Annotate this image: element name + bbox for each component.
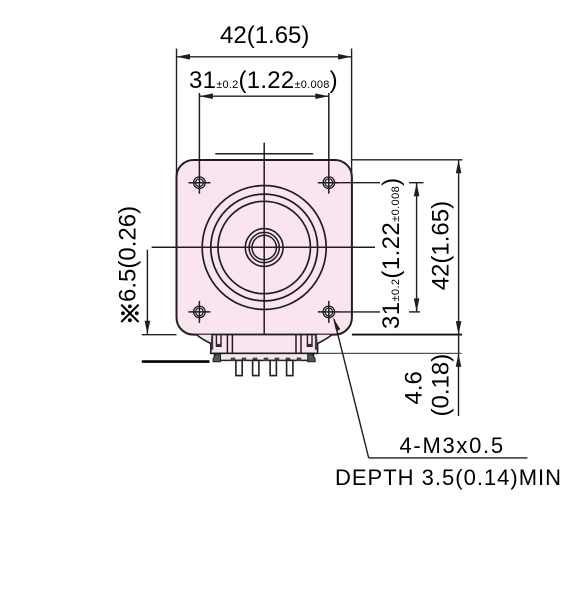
svg-text:6.5(0.26): 6.5(0.26) xyxy=(115,206,142,302)
right 31 dim top arrow xyxy=(414,183,420,197)
svg-text:42(1.65): 42(1.65) xyxy=(428,201,455,290)
top 42 dim line xyxy=(177,56,352,58)
6.5 dim body-bottom extension line xyxy=(142,334,177,336)
top 31 dim right arrow xyxy=(315,93,329,99)
svg-text:42(1.65): 42(1.65) xyxy=(220,22,309,49)
top 42 dim extension line right xyxy=(351,49,353,177)
rear housing edge line xyxy=(215,153,313,155)
pin 1 xyxy=(236,360,242,375)
4.6 dim arrow line xyxy=(458,353,460,416)
right 42 dim bottom arrow xyxy=(456,321,462,335)
left dark edge bar xyxy=(211,335,213,350)
svg-text:31±0.2(1.22±0.008): 31±0.2(1.22±0.008) xyxy=(189,67,338,94)
mounting hole bottom-right xyxy=(318,301,340,323)
mounting hole bottom-left xyxy=(188,301,210,323)
svg-text:DEPTH 3.5(0.14)MIN: DEPTH 3.5(0.14)MIN xyxy=(335,465,562,490)
pin 2 xyxy=(253,360,259,375)
right dark edge bar xyxy=(315,335,317,350)
svg-text:(0.18): (0.18) xyxy=(428,354,455,417)
right 42 dim line xyxy=(458,160,460,354)
horizontal centerline xyxy=(152,246,375,248)
pin 3 xyxy=(270,360,276,375)
4.6 dim up arrow xyxy=(456,353,462,367)
left end-bell ogee wedge xyxy=(197,335,212,344)
connector teeth xyxy=(231,358,302,361)
connector inner wall left xyxy=(226,335,228,353)
right 31 dim bottom arrow xyxy=(414,298,420,312)
vertical centerline xyxy=(263,143,265,339)
connector inner wall right xyxy=(295,335,297,353)
pilot circle inner xyxy=(218,201,310,293)
mounting hole top-left xyxy=(188,93,210,194)
shaft circle xyxy=(252,235,276,259)
right 31 dim extension bottom xyxy=(340,311,380,313)
right 42 dim: body top edge extension xyxy=(352,159,463,161)
6.5 dim vertical line with down arrow xyxy=(146,250,148,335)
svg-text:4.6: 4.6 xyxy=(401,371,428,404)
pilot circle mid xyxy=(211,194,318,301)
※ reference mark xyxy=(121,305,139,323)
svg-text:31±0.2(1.22±0.008): 31±0.2(1.22±0.008) xyxy=(378,177,405,329)
left foot xyxy=(213,354,221,362)
leader underline xyxy=(369,457,528,459)
svg-text:4-M3x0.5: 4-M3x0.5 xyxy=(400,433,505,458)
leader line to mounting hole xyxy=(334,319,369,458)
right foot xyxy=(308,354,316,362)
shaft circle outer xyxy=(249,232,279,262)
4.6 dim extension line xyxy=(318,352,461,354)
leader arrowhead xyxy=(333,318,340,332)
right clip slot xyxy=(307,335,312,346)
top 42 dim extension line left xyxy=(176,49,178,177)
top 42 dim right arrow xyxy=(338,54,352,60)
6.5 dim connector-bottom thick line xyxy=(142,360,210,363)
right 31 dim extension top xyxy=(340,182,380,184)
right end-bell ogee wedge xyxy=(317,335,332,344)
pilot circle outer xyxy=(202,186,326,310)
motor body outline xyxy=(177,160,352,335)
right 31 dim line xyxy=(416,183,418,312)
mounting hole top-right xyxy=(318,93,340,194)
right 42 dim top arrow xyxy=(456,160,462,174)
connector lower lip xyxy=(215,353,314,360)
top 31 dim line xyxy=(199,95,328,97)
pin 4 xyxy=(287,360,293,375)
connector housing upper block xyxy=(211,335,318,354)
shaft boss circle xyxy=(245,229,283,267)
right 42 dim: body bottom edge extension xyxy=(352,334,462,336)
top 31 dim left arrow xyxy=(199,93,213,99)
top 42 dim left arrow xyxy=(177,54,191,60)
left clip slot xyxy=(216,335,221,346)
